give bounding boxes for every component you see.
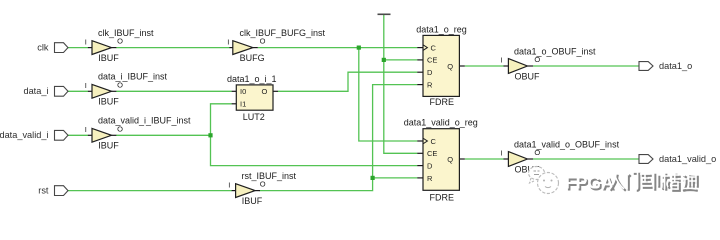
svg-text:I: I	[85, 81, 87, 90]
wire CE net branch to upper FDRE CE	[384, 59, 418, 61]
buffer clk_IBUF_inst	[85, 28, 154, 63]
wire data1_o_reg Q to OBUF	[465, 65, 504, 67]
wire CE net vertical from top stub	[384, 15, 418, 153]
wire clk_IBUF_BUFG branch down to lower FDRE C	[359, 48, 418, 141]
svg-text:FDRE: FDRE	[430, 193, 455, 203]
watermark text FPGA	[565, 173, 616, 195]
junction rst_IBUF net at lower R row	[371, 176, 375, 180]
junction data_valid_i_IBUF net	[208, 133, 212, 137]
svg-text:clk_IBUF_BUFG_inst: clk_IBUF_BUFG_inst	[240, 28, 326, 38]
svg-text:IBUF: IBUF	[242, 196, 263, 206]
svg-text:data1_valid_o: data1_valid_o	[659, 154, 716, 164]
wire data_i net (port to IBUF)	[68, 90, 88, 92]
register data1_valid_o_reg (FDRE)	[404, 118, 478, 203]
svg-text:I0: I0	[240, 87, 246, 96]
watermark text CJK (drawn strokes)	[609, 172, 698, 191]
register data1_o_reg (FDRE)	[416, 24, 467, 107]
wire data1_valid_o_OBUF net (OBUF to output port)	[533, 158, 639, 160]
wire data1_o_OBUF net (OBUF to output port)	[533, 65, 639, 67]
wire data_valid_i_IBUF branch down to lower FDRE D	[211, 135, 418, 165]
buffer data_i_IBUF_inst	[85, 72, 168, 107]
svg-text:data1_valid_o_reg: data1_valid_o_reg	[404, 118, 478, 128]
svg-text:O: O	[534, 55, 540, 64]
buffer data1_valid_o_OBUF_inst	[501, 140, 620, 175]
junction clk_IBUF_BUFG at C row	[357, 46, 361, 50]
svg-text:O: O	[117, 37, 123, 46]
svg-text:rst: rst	[38, 185, 49, 195]
wire data_valid_i net (port to IBUF)	[68, 134, 88, 136]
svg-text:O: O	[262, 87, 268, 96]
svg-text:I: I	[85, 125, 87, 134]
wire data_valid_i_IBUF net (IBUF to junction)	[116, 134, 210, 136]
svg-text:clk_IBUF_inst: clk_IBUF_inst	[98, 28, 154, 38]
svg-text:I1: I1	[240, 100, 246, 109]
svg-text:rst_IBUF_inst: rst_IBUF_inst	[242, 171, 297, 181]
input port clk	[37, 42, 68, 52]
output port data1_valid_o	[639, 154, 716, 164]
svg-text:O: O	[260, 37, 266, 46]
svg-text:D: D	[427, 161, 433, 170]
svg-text:D: D	[427, 68, 433, 77]
svg-text:data_valid_i: data_valid_i	[0, 130, 49, 140]
wire data_valid_i_IBUF branch up to LUT2 I1	[211, 104, 232, 136]
svg-text:I: I	[227, 37, 229, 46]
svg-text:I: I	[501, 149, 503, 158]
svg-text:Q: Q	[447, 62, 453, 71]
svg-text:LUT2: LUT2	[243, 112, 265, 122]
svg-text:clk: clk	[37, 42, 49, 52]
svg-text:O: O	[117, 124, 123, 133]
wire data_i_IBUF net (IBUF to LUT2 I0)	[116, 90, 231, 92]
wire data1_valid_o_reg Q to OBUF	[465, 158, 504, 160]
svg-text:C: C	[431, 137, 437, 146]
svg-text:data_valid_i_IBUF_inst: data_valid_i_IBUF_inst	[98, 116, 191, 126]
svg-text:C: C	[431, 43, 437, 52]
svg-text:data1_o_OBUF_inst: data1_o_OBUF_inst	[514, 47, 596, 57]
svg-text:R: R	[427, 80, 433, 89]
wire clk net (port to IBUF)	[68, 47, 88, 49]
wire clk_IBUF net (IBUF to BUFG)	[116, 47, 229, 49]
wire rst_IBUF net (IBUF up to upper FDRE R)	[259, 85, 417, 191]
input port data_valid_i	[0, 130, 68, 140]
svg-text:CE: CE	[427, 56, 437, 65]
svg-text:IBUF: IBUF	[98, 53, 119, 63]
wire rst_IBUF branch to lower FDRE R	[373, 177, 418, 179]
svg-text:O: O	[534, 148, 540, 157]
output port data1_o	[639, 61, 692, 71]
svg-text:BUFG: BUFG	[240, 53, 265, 63]
LUT data1_o_i_1	[227, 74, 278, 122]
svg-text:IBUF: IBUF	[98, 97, 119, 107]
wire clk_IBUF_BUFG net (BUFG to FDRE C pins)	[258, 47, 418, 49]
svg-text:R: R	[427, 174, 433, 183]
buffer data_valid_i_IBUF_inst	[85, 116, 191, 151]
wire data1_o_i_1 output net (LUT2 O to upper FDRE D)	[278, 72, 417, 91]
svg-text:I: I	[501, 56, 503, 65]
junction CE net at upper CE row	[382, 58, 386, 62]
svg-text:FDRE: FDRE	[430, 97, 455, 107]
svg-text:data1_o_i_1: data1_o_i_1	[227, 74, 277, 84]
svg-text:CE: CE	[427, 149, 437, 158]
svg-text:data1_o_reg: data1_o_reg	[416, 24, 467, 34]
net stub terminal (top bar) of CE net	[378, 14, 391, 16]
svg-text:OBUF: OBUF	[515, 71, 541, 81]
svg-text:O: O	[260, 180, 266, 189]
svg-text:Q: Q	[447, 155, 453, 164]
buffer data1_o_OBUF_inst	[501, 47, 597, 82]
svg-text:data_i: data_i	[23, 86, 48, 96]
svg-text:O: O	[117, 80, 123, 89]
buffer rst_IBUF_inst	[228, 171, 296, 206]
input port rst	[38, 185, 68, 195]
svg-text:I: I	[85, 37, 87, 46]
input port data_i	[23, 86, 68, 96]
svg-text:data_i_IBUF_inst: data_i_IBUF_inst	[98, 72, 168, 82]
svg-text:data1_o: data1_o	[659, 61, 692, 71]
wire rst net (port to IBUF)	[68, 190, 232, 192]
svg-text:FPGA: FPGA	[565, 173, 614, 193]
svg-text:data1_valid_o_OBUF_inst: data1_valid_o_OBUF_inst	[514, 140, 620, 150]
svg-text:I: I	[228, 180, 230, 189]
watermark logo (cartoon mascot)	[529, 167, 559, 194]
buffer clk_IBUF_BUFG_inst	[227, 28, 325, 63]
svg-text:IBUF: IBUF	[98, 141, 119, 151]
